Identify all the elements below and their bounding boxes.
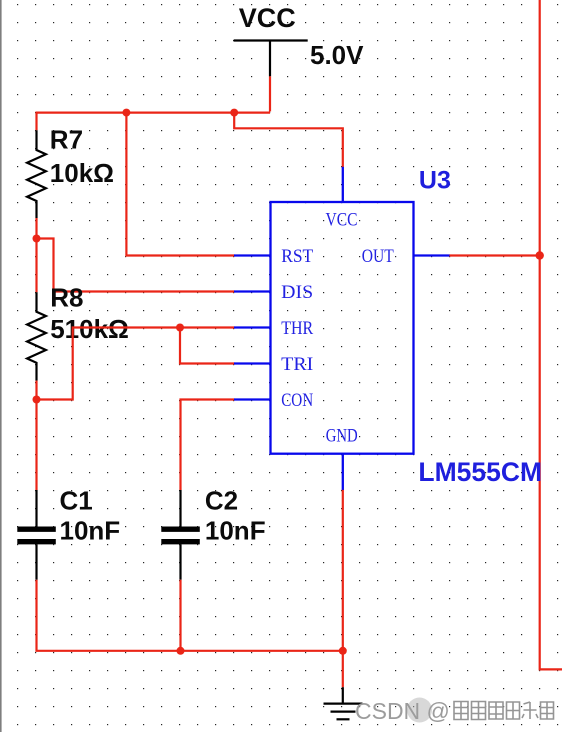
wire R8 bottom — [35, 381, 37, 400]
svg-text:TRI: TRI — [281, 354, 313, 375]
watermark CJK glyph 6 — [541, 702, 554, 719]
wire GND pin down — [342, 489, 344, 687]
watermark CSDN logo circle — [407, 698, 432, 723]
wire C2 bottom — [179, 580, 181, 651]
wire RST drop — [126, 113, 234, 256]
pin GND stub — [342, 454, 344, 490]
capacitor C2 — [161, 490, 200, 580]
svg-text:C1: C1 — [60, 485, 93, 515]
svg-text:LM555CM: LM555CM — [418, 457, 542, 487]
watermark CJK glyph 5 — [522, 702, 538, 719]
wire top rail — [37, 113, 271, 131]
pin CON stub — [234, 398, 271, 400]
watermark CJK glyph 1 — [454, 702, 468, 720]
node THR-TRI junction — [176, 324, 184, 332]
node R8-C1-THR junction — [33, 396, 41, 404]
svg-text:CSDN @: CSDN @ — [355, 698, 450, 724]
watermark CJK glyph 2 — [472, 702, 486, 720]
wire VCC pin branch — [234, 113, 343, 168]
svg-text:R8: R8 — [50, 283, 83, 313]
svg-text:10kΩ: 10kΩ — [50, 158, 114, 188]
node C2-groundrail junction — [177, 647, 185, 655]
node rail-RST junction — [122, 109, 130, 117]
wire R8 top — [35, 239, 37, 293]
svg-text:510kΩ: 510kΩ — [50, 314, 129, 344]
svg-text:VCC: VCC — [326, 210, 358, 231]
svg-text:U3: U3 — [419, 167, 451, 195]
watermark CJK glyph 3 — [489, 702, 503, 719]
pin THR stub — [234, 326, 271, 328]
wire TRI branch — [180, 328, 235, 364]
wire R7 bottom — [35, 218, 37, 239]
node rail-VCCpin junction — [230, 109, 238, 117]
svg-text:CON: CON — [281, 390, 313, 411]
wire OUT to right — [449, 254, 540, 256]
svg-text:5.0V: 5.0V — [310, 40, 364, 70]
svg-text:10nF: 10nF — [205, 516, 266, 546]
svg-text:10nF: 10nF — [60, 516, 121, 546]
pin RST stub — [234, 254, 271, 256]
power VCC symbol — [234, 41, 308, 77]
pin DIS stub — [234, 290, 271, 292]
resistor R8 — [27, 292, 46, 380]
node OUT junction — [536, 251, 544, 259]
wire VCC stem to rail — [269, 76, 271, 111]
wire THR hook — [37, 328, 235, 400]
capacitor C1 — [17, 490, 56, 580]
pin TRI stub — [234, 362, 271, 364]
svg-text:OUT: OUT — [362, 246, 394, 267]
wire C1 bottom to ground rail — [37, 580, 343, 651]
watermark CJK glyph 4 — [507, 702, 520, 719]
ground symbol — [324, 687, 363, 719]
wire DIS hook — [37, 239, 235, 292]
node R7-R8-DIS junction — [33, 235, 41, 243]
pin OUT stub — [414, 254, 450, 256]
IC U3 555 timer body LM555CM — [271, 202, 414, 454]
pin VCC stub — [342, 167, 344, 202]
wire C1 top — [35, 400, 37, 491]
node GND-groundrail junction — [339, 647, 347, 655]
svg-text:R7: R7 — [50, 125, 83, 155]
resistor R7 — [27, 130, 46, 218]
svg-text:GND: GND — [326, 426, 358, 447]
svg-text:VCC: VCC — [239, 3, 296, 33]
svg-text:THR: THR — [281, 318, 313, 339]
wire right vertical bus — [540, 0, 562, 669]
left page border line — [0, 0, 2, 732]
svg-text:C2: C2 — [205, 485, 238, 515]
svg-text:RST: RST — [281, 246, 313, 267]
svg-text:DIS: DIS — [281, 282, 313, 303]
wire CON to C2 — [181, 400, 235, 491]
